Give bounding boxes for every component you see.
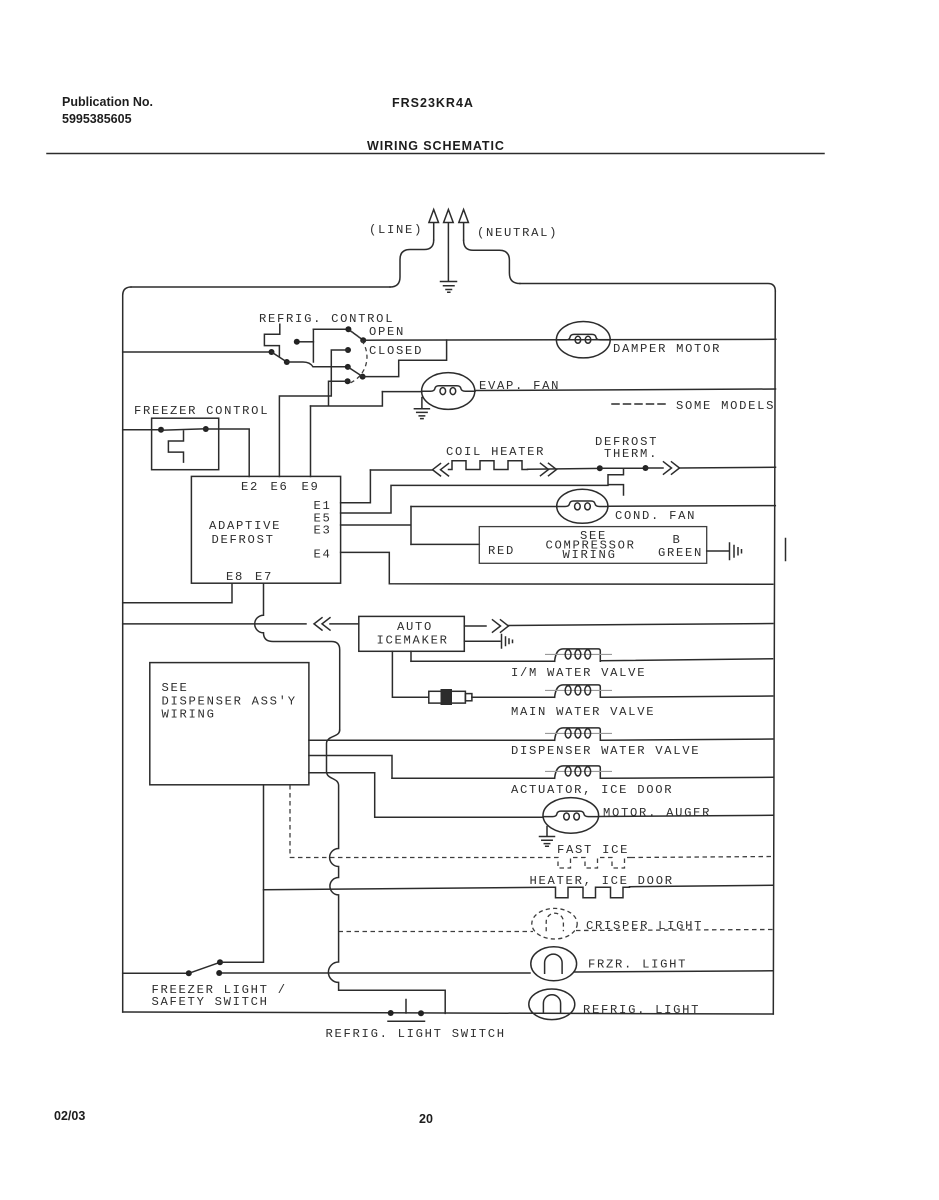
svg-text:SEE: SEE [162, 681, 189, 695]
wire: LINE arrow down to top border [390, 240, 434, 287]
wire: right border [773, 291, 775, 1014]
wire: I/M valve line [411, 659, 773, 662]
wire: cond fan line left [411, 506, 557, 508]
junction dot therm right [643, 465, 649, 471]
wire: blade-end to middle contact row3 [287, 362, 345, 367]
wire: dispenser box to auger motor [309, 773, 543, 818]
wire: border to freezer control [123, 429, 158, 431]
wire: coil heater line left end to E1 riser [370, 469, 432, 471]
svg-text:DEFROST: DEFROST [212, 533, 275, 547]
wire: dashed drop dispenser box to fast ice line [289, 785, 291, 858]
wire: heater ice door line [264, 885, 773, 890]
svg-text:Publication No.: Publication No. [62, 95, 153, 109]
svg-text:ADAPTIVE: ADAPTIVE [209, 519, 281, 533]
wire: top border right segment [520, 284, 775, 292]
freezer control contact right [203, 426, 209, 432]
wire: E9 drop from node [310, 406, 312, 477]
wire: crisper dashed line [339, 930, 773, 932]
wire: RED lead to compressor [411, 543, 479, 545]
ground symbol at plug [441, 282, 457, 293]
scan artifact tick right of border [785, 539, 787, 561]
refrig control blade lower (to CLOSED) [348, 367, 363, 377]
svg-text:CLOSED: CLOSED [369, 344, 423, 358]
wire: cond fan line right to border [608, 505, 775, 508]
compressor box [479, 527, 706, 564]
connector chevrons on main feed [314, 618, 330, 630]
freezer light switch throw contact [217, 959, 223, 965]
freezer light switch contact right [216, 970, 222, 976]
wire: icemaker line to right border [509, 624, 773, 626]
refrig control blade lower-left [272, 352, 287, 362]
wire: NEUTRAL arrow down to top-right border [464, 241, 520, 284]
wire: E4 to right border [341, 552, 773, 584]
svg-text:(NEUTRAL): (NEUTRAL) [477, 226, 558, 240]
svg-text:I/M WATER VALVE: I/M WATER VALVE [511, 666, 646, 680]
svg-text:E7: E7 [255, 570, 273, 584]
wire: bottom border [123, 1012, 774, 1014]
svg-text:MAIN WATER VALVE: MAIN WATER VALVE [511, 705, 655, 719]
svg-text:GREEN: GREEN [658, 546, 703, 560]
wire: auger motor to right border [599, 815, 773, 816]
refrig control contact blade-end [284, 359, 290, 365]
refrig control middle contact row1 [345, 326, 351, 332]
wire: left border [123, 287, 131, 1012]
svg-text:RED: RED [488, 544, 515, 558]
wire: between therm junctions [600, 467, 646, 469]
svg-text:WIRING SCHEMATIC: WIRING SCHEMATIC [367, 139, 505, 153]
wire: row4 contact to E9 node [329, 381, 348, 406]
svg-text:E9: E9 [302, 480, 320, 494]
wire: safety switch to dispenser box [220, 785, 264, 962]
wire: main feed border to icemaker [123, 623, 306, 625]
wire: freezer control to E2 [206, 429, 249, 477]
refrig light switch contact right [418, 1010, 424, 1016]
freezer control contact left [158, 427, 164, 433]
actuator ice door coil L4 [545, 766, 612, 778]
ground at evap fan [414, 398, 429, 419]
refrig control sensor zigzag [264, 324, 279, 356]
wire: icemaker to right chevrons [464, 625, 486, 627]
fast ice heater R2 dashed square wave [554, 858, 631, 869]
svg-text:SOME MODELS: SOME MODELS [676, 399, 775, 413]
svg-text:E4: E4 [314, 548, 332, 562]
ground plug arrow and stem [444, 210, 454, 282]
junction dot heater/therm left [597, 465, 603, 471]
svg-text:5995385605: 5995385605 [62, 112, 132, 126]
svg-text:(LINE): (LINE) [369, 223, 423, 237]
cond fan motor M3 [557, 489, 608, 523]
wire: E9 node horizontal [311, 392, 383, 406]
crisper light LP1 (dashed lamp) [532, 908, 577, 939]
wire: OPEN contact wrap to CLOSED contact [363, 340, 447, 377]
refrig control CLOSED contact [360, 374, 366, 380]
svg-text:WIRING: WIRING [162, 708, 216, 722]
wire: evap fan line left [382, 391, 422, 393]
svg-text:FRS23KR4A: FRS23KR4A [392, 96, 474, 110]
see dispenser assy wiring box [150, 663, 309, 785]
freezer control box [152, 418, 219, 470]
freezer control sensor zigzag [168, 431, 183, 462]
defrost thermostat S3 zigzag [608, 468, 624, 495]
svg-text:OPEN: OPEN [369, 325, 405, 339]
wire: E5 to therm [341, 485, 608, 513]
svg-text:FREEZER CONTROL: FREEZER CONTROL [134, 404, 269, 418]
main water valve coil L2 [545, 685, 612, 697]
node N1: neutral plug arrow [459, 210, 469, 241]
wire: E3 to cond fan node [341, 507, 411, 545]
refrig control stub contact [294, 339, 300, 345]
svg-text:MOTOR. AUGER: MOTOR. AUGER [603, 806, 711, 820]
chassis ground (sideways) at compressor [730, 543, 742, 560]
svg-text:DAMPER MOTOR: DAMPER MOTOR [613, 342, 721, 356]
wire: dispenser water valve line [309, 739, 773, 740]
freezer light switch blade [189, 962, 220, 973]
wire: x313 to top contact [313, 328, 345, 330]
wire: actuator ice door line [392, 777, 773, 778]
auger motor M4 [543, 798, 599, 834]
wire: E8 to left border [123, 583, 232, 603]
svg-text:THERM.: THERM. [604, 447, 658, 461]
svg-text:DISPENSER WATER VALVE: DISPENSER WATER VALVE [511, 744, 700, 758]
refrig light switch plunger [388, 1000, 425, 1022]
connector chevrons right of therm [664, 462, 680, 474]
legend dashed sample [612, 403, 666, 405]
connector chevrons right of icemaker [493, 620, 509, 632]
heater ice door element R3 square wave [548, 887, 630, 898]
svg-text:FAST ICE: FAST ICE [557, 843, 629, 857]
fuse F1 inline [429, 689, 472, 705]
wire: fast ice dashed line [290, 857, 773, 858]
refrig control blade top (to OPEN) [348, 329, 363, 340]
svg-text:E6: E6 [271, 480, 289, 494]
svg-text:ACTUATOR, ICE DOOR: ACTUATOR, ICE DOOR [511, 783, 673, 797]
refrig control middle contact row2 [345, 347, 351, 353]
ground at auger motor [540, 827, 555, 847]
svg-text:E3: E3 [314, 524, 332, 538]
svg-text:E2: E2 [241, 480, 259, 494]
wire: E7 long vertical with jog and hops [327, 730, 446, 1013]
svg-text:20: 20 [419, 1112, 433, 1126]
wire: left border to refrig control pivot [123, 351, 272, 353]
connector chevrons right of heater element [541, 463, 557, 475]
refrig control OPEN contact [360, 337, 366, 343]
dispenser water valve coil L3 [545, 728, 612, 740]
wire: therm line to right border [646, 466, 776, 469]
wire: GREEN lead to chassis ground [707, 550, 729, 552]
wire: stub contact to x313 [300, 341, 314, 343]
svg-text:COND. FAN: COND. FAN [615, 509, 696, 523]
damper motor M1 [556, 322, 610, 358]
wire: freezer light line [123, 971, 773, 974]
wire: vertical x313 from top contact line down [312, 329, 314, 362]
wire: damper motor line [363, 338, 776, 341]
svg-text:REFRIG. LIGHT: REFRIG. LIGHT [583, 1003, 700, 1017]
refrig light LP3 [529, 989, 575, 1020]
title rule line [47, 153, 824, 155]
refrig control middle contact row3 [345, 364, 351, 370]
svg-text:REFRIG. CONTROL: REFRIG. CONTROL [259, 312, 394, 326]
node L1: line plug arrow [429, 210, 439, 241]
svg-text:02/03: 02/03 [54, 1109, 85, 1123]
svg-text:FRZR. LIGHT: FRZR. LIGHT [588, 958, 687, 972]
heater element R1 square wave [449, 461, 528, 470]
refrig control pivot contact [269, 349, 275, 355]
wire: icemaker box bottom to I/M valve line [410, 651, 412, 661]
wire: fuse to main valve coil [472, 696, 773, 697]
svg-text:WIRING: WIRING [563, 548, 617, 562]
svg-text:E8: E8 [226, 570, 244, 584]
svg-text:DISPENSER ASS'Y: DISPENSER ASS'Y [162, 695, 297, 709]
wire: icemaker box bottom to main valve line [392, 651, 428, 697]
svg-text:EVAP. FAN: EVAP. FAN [479, 379, 560, 393]
wire: evap fan line right to border [475, 389, 776, 391]
connector (sideways ground) at icemaker [502, 635, 513, 649]
refrig control dashed cam arc [350, 331, 367, 383]
svg-text:SAFETY SWITCH: SAFETY SWITCH [152, 995, 269, 1009]
svg-text:B: B [673, 533, 682, 547]
refrig light switch contact left [388, 1010, 394, 1016]
auto icemaker box U2 [359, 616, 465, 651]
wire: top border left segment [131, 286, 390, 288]
adaptive defrost board U1 [191, 476, 340, 583]
connector chevrons left on heater line [433, 464, 449, 476]
wire: heater line to defrost therm junction [528, 467, 600, 470]
frzr light LP2 [531, 947, 577, 981]
svg-text:AUTO: AUTO [397, 620, 433, 634]
refrig control middle contact row4 [345, 378, 351, 384]
svg-text:ICEMAKER: ICEMAKER [377, 634, 449, 648]
wire: icemaker test connector stub [464, 640, 500, 642]
svg-text:COIL HEATER: COIL HEATER [446, 445, 545, 459]
I/M water valve coil L1 [545, 649, 612, 661]
wire: E7 drop with hop over main feed [255, 583, 340, 730]
wire: dispenser box to actuator line [309, 756, 392, 779]
svg-text:CRISPER LIGHT: CRISPER LIGHT [586, 919, 703, 933]
evap fan motor M2 [422, 373, 476, 410]
svg-text:REFRIG. LIGHT SWITCH: REFRIG. LIGHT SWITCH [326, 1027, 506, 1041]
freezer light switch contact left [186, 970, 192, 976]
wire: row2 contact to E6 drop [279, 350, 348, 477]
freezer control blade [161, 429, 206, 430]
wire: E1 to heater riser [341, 470, 371, 503]
wire: main feed to icemaker box [330, 623, 359, 625]
